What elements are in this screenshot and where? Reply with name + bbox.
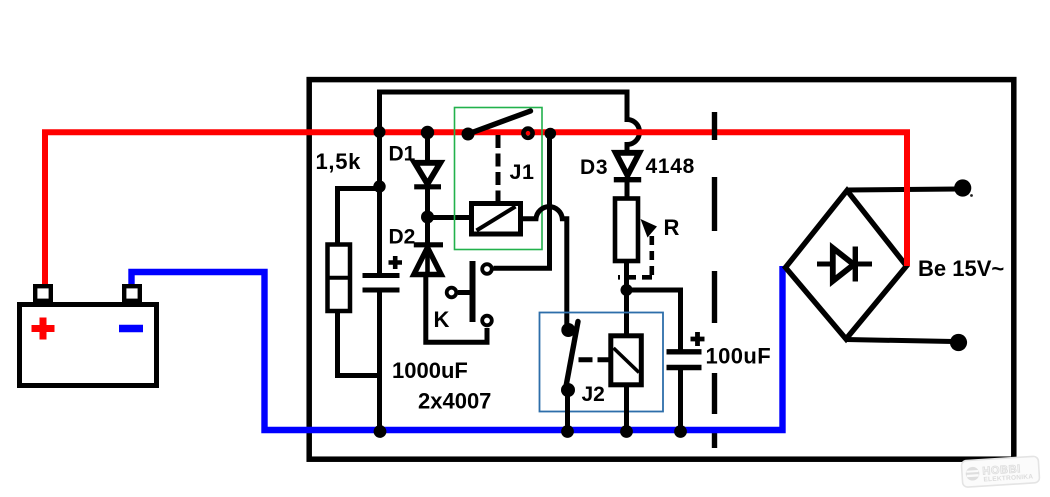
- switch K stem contact ring: [447, 288, 457, 298]
- node dot ground rail at C2: [674, 425, 687, 438]
- diode D2: [425, 217, 430, 245]
- bridge diode symbol: [817, 262, 872, 267]
- svg-text:D2: D2: [389, 226, 416, 249]
- wire from node on red down to switch K top contact: [494, 133, 550, 268]
- svg-text:1,5k: 1,5k: [316, 149, 362, 174]
- dashed actuator link of J1: [496, 135, 501, 204]
- node dot D1-D2 junction: [421, 211, 434, 224]
- plus mark of C2: [691, 332, 705, 346]
- wire junction to capacitor C2 branch: [627, 290, 681, 350]
- plus mark of C1: [389, 256, 403, 269]
- dashed actuator link of J2: [579, 357, 611, 362]
- trimmer dashed wiper return: [649, 236, 654, 277]
- bridge rectifier diamond: [786, 191, 907, 340]
- relay J1 coil: [472, 204, 521, 235]
- wire C2 bottom to ground rail: [678, 368, 683, 433]
- switch J1 arm: [468, 111, 531, 134]
- resistor R1 1,5k: [338, 189, 380, 245]
- wire D2 bottom to switch K lower contact: [426, 274, 487, 342]
- svg-text:2x4007: 2x4007: [418, 389, 491, 414]
- speck near top terminal: [970, 194, 973, 197]
- switch K stem: [458, 290, 473, 295]
- terminal dot bottom output: [950, 334, 967, 351]
- wire blue negative from battery along ground rail to bridge: [132, 266, 783, 430]
- switch K upper contact ring: [482, 264, 492, 274]
- node dot ground rail at J2 switch: [561, 425, 574, 438]
- node dot junction below R: [621, 284, 633, 296]
- resistor R trimmer body: [615, 199, 638, 262]
- dashed separator line: [712, 112, 717, 448]
- diode D3: [625, 145, 630, 153]
- wire below capacitor C1 to ground rail: [377, 292, 382, 432]
- svg-text:Be 15V~: Be 15V~: [918, 256, 1004, 281]
- relay J2 blue frame: [540, 313, 664, 412]
- wire J2 coil to ground rail: [624, 385, 629, 432]
- battery terminal positive: [35, 286, 51, 301]
- battery B1 body: [20, 305, 157, 386]
- wire bridge top output: [847, 189, 958, 190]
- wire junction down to J2 coil: [624, 290, 629, 336]
- wire J1 coil right over hop down to J2 switch: [520, 207, 567, 324]
- battery terminal negative: [124, 286, 140, 301]
- switch J2 bottom dot: [561, 383, 575, 397]
- node dot resistor tap: [373, 180, 385, 192]
- watermark logo: [961, 456, 1040, 487]
- switch J2 top dot: [561, 323, 575, 337]
- battery minus label: [119, 325, 143, 332]
- svg-text:1000uF: 1000uF: [392, 358, 468, 383]
- wire red positive from battery to bridge: [45, 132, 907, 287]
- diode D1: [425, 138, 430, 163]
- trimmer wiper arrow: [641, 219, 658, 238]
- switch J2 arm: [566, 322, 579, 390]
- switch J1 fixed contact ring: [523, 129, 532, 138]
- wire J2 switch to ground rail: [565, 390, 570, 432]
- wire bridge bottom output: [846, 340, 953, 342]
- svg-text:100uF: 100uF: [706, 344, 772, 369]
- node dot A on red wire: [374, 126, 386, 138]
- capacitor C2 100uF plates: [667, 349, 702, 354]
- wire main vertical node A column: [377, 130, 382, 273]
- terminal dot top output: [954, 179, 971, 196]
- svg-text:K: K: [434, 307, 450, 332]
- capacitor C1 1000uF plates: [363, 273, 400, 278]
- wire R bottom to junction: [624, 261, 629, 290]
- node dot right of J1 contact: [545, 128, 557, 140]
- battery plus label: [32, 318, 55, 340]
- svg-text:D1: D1: [389, 143, 416, 166]
- outer circuit box: [309, 80, 1014, 460]
- node dot ground rail at main column: [374, 425, 387, 438]
- relay J2 coil: [611, 336, 642, 385]
- svg-text:D3: D3: [580, 156, 608, 179]
- relay J1 green frame: [455, 108, 543, 250]
- svg-text:4148: 4148: [646, 155, 696, 178]
- svg-text:J1: J1: [510, 160, 535, 184]
- node dot D1 top: [421, 126, 434, 139]
- switch K actuator bar: [470, 261, 476, 322]
- node dot ground rail at J2 coil: [620, 425, 633, 438]
- wire junction to relay J1 coil: [427, 215, 471, 220]
- svg-text:R: R: [664, 215, 680, 240]
- svg-text:J2: J2: [582, 383, 605, 406]
- wire top rail from node A to D3 branch with hop over red wire: [380, 92, 640, 152]
- switch J1 pivot dot on red wire: [462, 128, 475, 141]
- red wire overlay where it crosses bridge top output: [904, 180, 910, 266]
- switch K lower contact ring: [482, 316, 492, 326]
